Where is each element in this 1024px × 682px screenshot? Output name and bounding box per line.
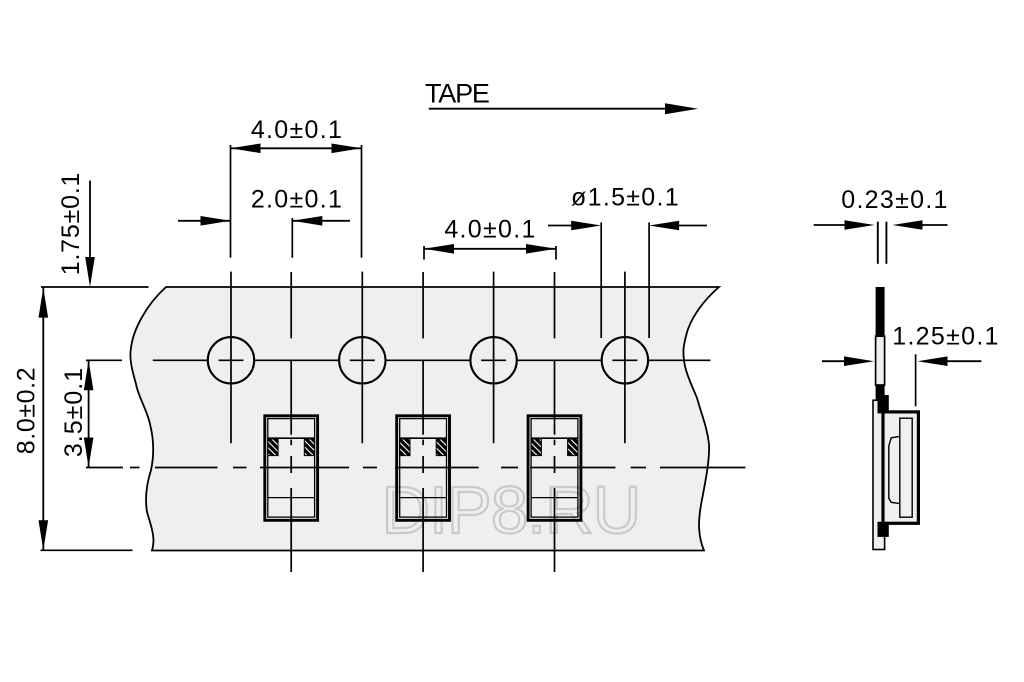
pocket 1 inner wall — [268, 419, 315, 517]
pocket 2 cavity bottom edge — [400, 497, 447, 499]
side view: component seat outline — [900, 418, 912, 517]
pocket centre chain line — [86, 467, 123, 469]
side view: tape flange strip — [873, 400, 885, 549]
component pocket 2 outer wall — [397, 416, 450, 521]
extension line at tape bottom edge — [41, 549, 133, 551]
sprocket hole centre row line — [86, 359, 122, 361]
svg-text:4.0±0.1: 4.0±0.1 — [444, 216, 536, 244]
svg-text:TAPE: TAPE — [425, 79, 489, 109]
extension line at pocket 2 centre — [423, 246, 425, 260]
pocket 1 cavity bottom edge — [268, 497, 315, 499]
side view: tape thickness extension lines — [877, 222, 879, 264]
sprocket hole 4 vertical centreline — [624, 272, 626, 444]
pocket 2 left hatched pad — [400, 439, 410, 456]
sprocket hole 1 cross tick — [219, 359, 244, 361]
svg-text:ø1.5±0.1: ø1.5±0.1 — [571, 183, 680, 211]
sprocket hole 4 cross tick — [612, 359, 637, 361]
pocket 1 cavity top edge — [268, 437, 315, 439]
sprocket hole 2 — [339, 337, 385, 383]
sprocket hole 3 — [470, 337, 516, 383]
pocket 3 cavity top edge — [531, 437, 578, 439]
side view: tape upper solid section — [876, 287, 885, 336]
extension line at hole 2 centre — [361, 145, 363, 258]
extension line at hole 1 centre — [230, 145, 232, 258]
svg-text:1.25±0.1: 1.25±0.1 — [892, 323, 1000, 351]
extension line at pocket outer face — [915, 354, 917, 406]
pocket 2 cavity top edge — [400, 437, 447, 439]
pocket 1 right hatched pad — [304, 439, 314, 456]
svg-text:3.5±0.1: 3.5±0.1 — [60, 367, 88, 457]
sprocket hole 2 vertical centreline — [361, 272, 363, 444]
pocket 3 inner wall — [531, 419, 578, 517]
pocket 1 vertical centreline — [290, 272, 292, 338]
component pocket 1 outer wall — [265, 416, 318, 521]
svg-text:4.0±0.1: 4.0±0.1 — [251, 116, 343, 144]
side view: seal patch top — [878, 395, 889, 413]
side view: embossed pocket bulge — [883, 412, 918, 523]
svg-text:2.0±0.1: 2.0±0.1 — [251, 185, 343, 213]
side view: tape open section — [876, 336, 885, 385]
carrier tape strip (front view, torn ends) — [130, 287, 719, 551]
pocket 1 left hatched pad — [268, 439, 278, 456]
svg-text:0.23±0.1: 0.23±0.1 — [841, 186, 949, 214]
svg-text:DIP8.RU: DIP8.RU — [382, 473, 641, 548]
sprocket hole 4 — [602, 337, 648, 383]
extension line at hole 4 right tangent — [648, 223, 650, 339]
svg-text:8.0±0.2: 8.0±0.2 — [13, 367, 41, 454]
pocket 3 vertical centreline — [554, 272, 556, 338]
sprocket hole 2 cross tick — [350, 359, 375, 361]
pocket 3 left hatched pad — [531, 439, 541, 456]
sprocket hole 1 vertical centreline — [230, 272, 232, 444]
side view: seal patch bottom — [878, 522, 889, 537]
pocket 3 right hatched pad — [568, 439, 578, 456]
extension line at pocket 1 centre — [291, 218, 293, 258]
pocket 2 right hatched pad — [436, 439, 446, 456]
side view: tape lower solid section — [876, 385, 885, 400]
side view: component body profile — [889, 436, 900, 503]
pocket 3 cavity bottom edge — [531, 497, 578, 499]
extension line at pocket 3 centre — [555, 246, 557, 260]
sprocket hole 3 cross tick — [481, 359, 506, 361]
pocket 2 inner wall — [400, 419, 447, 517]
extension line at hole 4 left tangent — [600, 223, 602, 339]
sprocket hole 3 vertical centreline — [493, 272, 495, 444]
extension line at tape top edge — [41, 286, 149, 288]
sprocket hole 1 — [208, 337, 254, 383]
svg-text:1.75±0.1: 1.75±0.1 — [57, 172, 85, 276]
component pocket 3 outer wall — [528, 416, 581, 521]
TAPE direction arrow — [429, 108, 670, 110]
pocket 2 vertical centreline — [422, 272, 424, 338]
